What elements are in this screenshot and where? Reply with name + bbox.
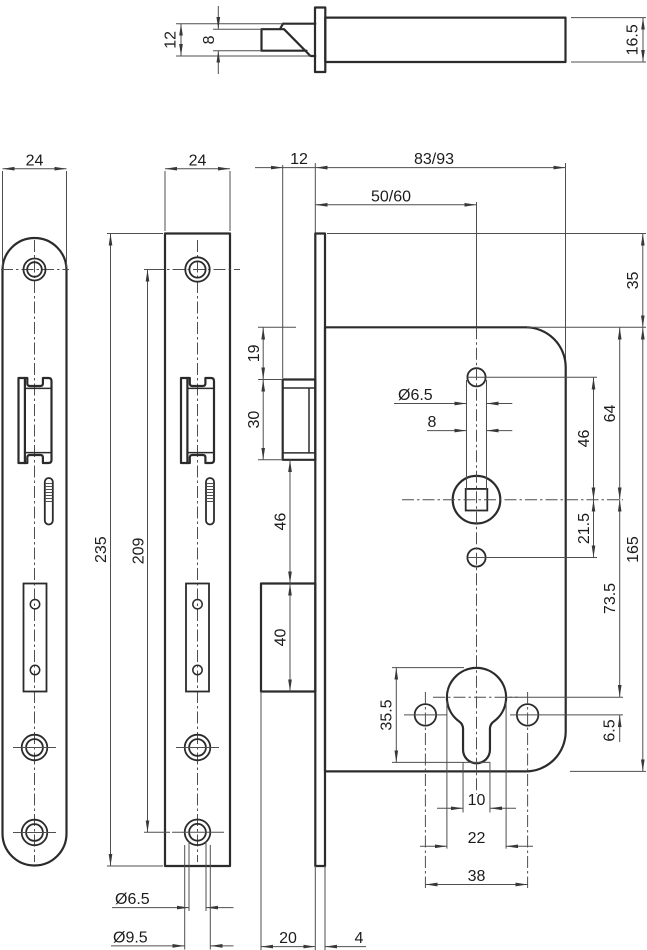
cylinder fixing hole right bbox=[517, 704, 539, 726]
dimension 165 (case height) bbox=[642, 327, 644, 771]
faceplate A latch cutout bbox=[19, 378, 52, 463]
dimension 209 (screw hole spacing) bbox=[147, 270, 149, 833]
svg-text:30: 30 bbox=[246, 411, 263, 429]
cylinder fixing hole left bbox=[415, 704, 437, 726]
dimension 235 (faceplate length) bbox=[110, 234, 112, 867]
latch bolt (top view) bbox=[262, 24, 316, 56]
svg-text:35.5: 35.5 bbox=[379, 699, 396, 730]
faceplate A top screw hole bbox=[24, 259, 46, 281]
svg-text:46: 46 bbox=[273, 513, 290, 531]
extension lines (row dims) bbox=[283, 163, 646, 378]
dimension 46 (hole to follower) bbox=[593, 377, 595, 499]
faceplate A deadbolt cutout bbox=[24, 584, 47, 692]
svg-text:22: 22 bbox=[468, 830, 486, 847]
hole below follower bbox=[467, 548, 485, 566]
svg-text:24: 24 bbox=[189, 152, 207, 169]
svg-text:12: 12 bbox=[163, 31, 180, 49]
dimension 16.5 (case depth, top view) bbox=[642, 18, 644, 62]
dimension 8 (latch body height, top view) bbox=[217, 6, 219, 29]
dimension 21.5 (follower to hole) bbox=[593, 500, 595, 558]
svg-text:165: 165 bbox=[625, 536, 642, 563]
euro profile cylinder hole bbox=[447, 668, 506, 763]
faceplate A adjustment screw slot bbox=[45, 478, 53, 525]
dimension 24 (faceplate A width) bbox=[3, 168, 67, 170]
svg-text:21.5: 21.5 bbox=[576, 513, 593, 544]
latch bolt head (front view) bbox=[283, 380, 316, 460]
dimension 19 (case top to latch) bbox=[262, 327, 264, 379]
extension lines (right dims) bbox=[527, 327, 646, 771]
deadbolt (front view) bbox=[261, 584, 315, 692]
dimension 24 (faceplate B width) bbox=[165, 168, 230, 170]
hole above follower bbox=[467, 368, 485, 386]
svg-text:24: 24 bbox=[26, 152, 44, 169]
lock case body (top view) bbox=[325, 18, 565, 62]
dimension 73.5 (follower to cylinder) bbox=[619, 500, 621, 698]
svg-text:38: 38 bbox=[468, 868, 486, 885]
svg-text:50/60: 50/60 bbox=[371, 189, 411, 206]
svg-text:40: 40 bbox=[273, 629, 290, 647]
dimension 50/60 (backset) bbox=[315, 204, 476, 206]
dimension 4 (faceplate thickness) bbox=[325, 946, 366, 948]
svg-text:20: 20 bbox=[279, 930, 297, 947]
dimension 12 (latch height, top view) bbox=[180, 24, 182, 56]
vertical centerline (case) bbox=[476, 327, 478, 794]
extension lines (left dims) bbox=[258, 327, 296, 460]
svg-text:235: 235 bbox=[93, 536, 110, 563]
svg-text:Ø9.5: Ø9.5 bbox=[113, 930, 148, 947]
dimension 20 (deadbolt throw) bbox=[261, 946, 315, 948]
dimension 35.5 (cylinder profile height) bbox=[395, 668, 397, 763]
svg-text:35: 35 bbox=[625, 272, 642, 290]
svg-text:64: 64 bbox=[602, 405, 619, 423]
faceplate B latch cutout bbox=[181, 378, 214, 463]
faceplate A top hole centerline bbox=[1, 269, 69, 271]
dimension 30 (latch height) bbox=[262, 380, 264, 460]
square follower bbox=[453, 476, 501, 524]
faceplate B top screw hole bbox=[185, 257, 209, 281]
faceplate A middle screw hole bbox=[22, 735, 48, 761]
dimension 64 (case top to follower) bbox=[619, 327, 621, 499]
svg-text:10: 10 bbox=[468, 792, 486, 809]
dimension 38 (fixing hole spacing) bbox=[425, 884, 527, 886]
svg-text:83/93: 83/93 bbox=[414, 151, 454, 168]
faceplate B vertical centerline bbox=[197, 240, 199, 862]
faceplate B adjustment screw slot bbox=[206, 478, 214, 525]
lock case outline (front view) bbox=[325, 327, 566, 771]
svg-text:19: 19 bbox=[246, 344, 263, 362]
faceplate B outline (square ends) bbox=[165, 234, 230, 867]
faceplate B deadbolt cutout bbox=[186, 584, 209, 692]
faceplate B top hole centerline bbox=[152, 269, 240, 271]
faceplate A vertical centerline bbox=[34, 240, 36, 862]
dimension 40 (deadbolt height) bbox=[289, 584, 291, 692]
svg-text:4: 4 bbox=[355, 930, 364, 947]
dimension 12 (latch width) bbox=[255, 167, 283, 169]
svg-text:6.5: 6.5 bbox=[602, 719, 619, 741]
extension lines (top view case right) bbox=[571, 18, 646, 62]
faceplate edge strip (front view) bbox=[315, 234, 325, 867]
dimension 22 (cylinder hole width) bbox=[447, 701, 506, 849]
dimension 6.5 (cylinder to fixing holes) bbox=[619, 715, 621, 742]
faceplate B middle screw hole bbox=[185, 735, 211, 761]
svg-text:Ø6.5: Ø6.5 bbox=[115, 891, 150, 908]
faceplate A bottom screw hole bbox=[22, 820, 48, 846]
svg-text:12: 12 bbox=[290, 151, 308, 168]
svg-text:73.5: 73.5 bbox=[602, 583, 619, 614]
faceplate edge (top view) bbox=[315, 8, 325, 73]
follower horizontal centerline bbox=[402, 499, 623, 501]
dimension 10 (cylinder tongue width) bbox=[463, 762, 490, 813]
svg-text:Ø6.5: Ø6.5 bbox=[398, 387, 433, 404]
svg-text:8: 8 bbox=[428, 414, 437, 431]
faceplate A outline (rounded ends) bbox=[3, 238, 67, 866]
svg-text:8: 8 bbox=[201, 35, 218, 44]
svg-text:209: 209 bbox=[131, 537, 148, 564]
dimension 83/93 (case depth) bbox=[315, 167, 565, 169]
svg-text:46: 46 bbox=[576, 430, 593, 448]
dimension 46 (latch to deadbolt) bbox=[289, 460, 291, 584]
svg-text:16.5: 16.5 bbox=[625, 24, 642, 55]
dimension 35 (plate top to case top) bbox=[642, 234, 644, 328]
faceplate B bottom screw hole bbox=[185, 820, 211, 846]
extension lines (bottom dims) bbox=[261, 692, 325, 950]
cylinder horizontal centerline bbox=[433, 696, 518, 698]
extension lines (top view latch) bbox=[176, 24, 311, 56]
